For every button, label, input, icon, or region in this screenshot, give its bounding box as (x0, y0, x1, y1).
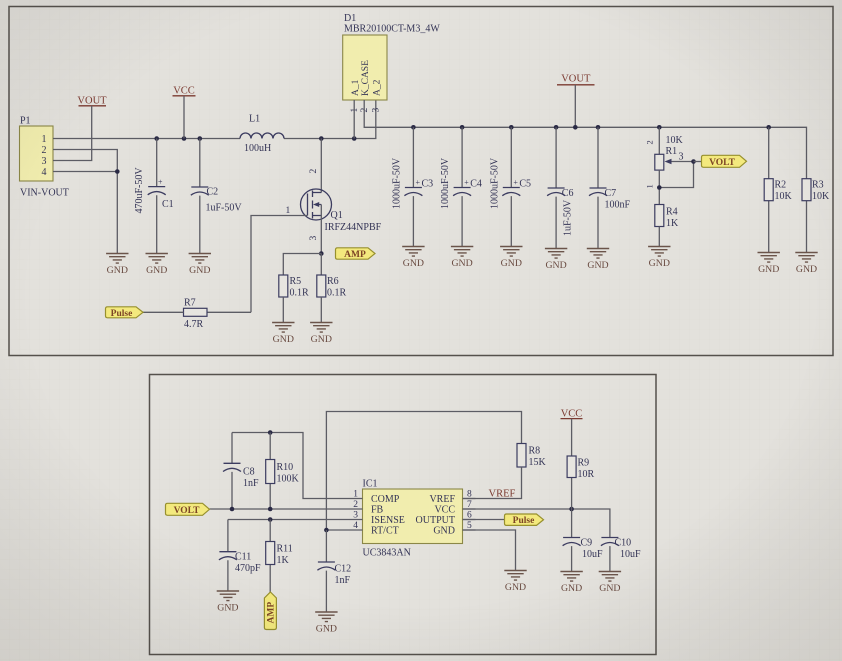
svg-text:4: 4 (42, 167, 47, 178)
svg-text:R5: R5 (290, 276, 302, 287)
node R10 top junction (268, 430, 273, 435)
svg-text:Q1: Q1 (331, 210, 343, 221)
svg-text:1nF: 1nF (335, 575, 351, 586)
svg-text:1nF: 1nF (243, 478, 259, 489)
ground C4 (451, 247, 473, 270)
resistor R10 (266, 433, 300, 510)
node C1 junction (154, 136, 159, 141)
svg-text:VREF: VREF (489, 489, 516, 500)
capacitor C6 (547, 127, 574, 248)
svg-text:VCC: VCC (173, 86, 195, 97)
ground C11 (217, 591, 239, 614)
svg-text:IRFZ44NPBF: IRFZ44NPBF (325, 222, 382, 233)
wire RT CT net pin4 (326, 412, 521, 531)
ground R2 (758, 253, 780, 276)
svg-text:100K: 100K (277, 474, 300, 485)
ground R6 (310, 323, 332, 346)
svg-text:100uH: 100uH (244, 143, 271, 154)
svg-text:3: 3 (372, 108, 382, 113)
node R1 junction (657, 125, 662, 130)
svg-text:IC1: IC1 (363, 479, 378, 490)
svg-text:C10: C10 (615, 538, 632, 549)
wire ISENSE net pin3 to C11 R11 (228, 520, 350, 552)
svg-text:3: 3 (353, 511, 358, 521)
svg-text:OUTPUT: OUTPUT (416, 515, 455, 526)
svg-text:1000uF-50V: 1000uF-50V (440, 157, 451, 209)
net flag AMP top (336, 248, 376, 260)
svg-text:100nF: 100nF (605, 200, 631, 211)
svg-text:GND: GND (217, 603, 238, 614)
transistor Q1 (286, 139, 382, 254)
svg-text:RT/CT: RT/CT (371, 526, 399, 537)
svg-text:VIN-VOUT: VIN-VOUT (20, 188, 69, 199)
svg-text:COMP: COMP (371, 494, 400, 505)
node C3 junction (411, 125, 416, 130)
svg-text:C5: C5 (519, 179, 531, 190)
svg-text:1000uF-50V: 1000uF-50V (489, 157, 500, 209)
diode D1 (343, 13, 441, 113)
ground C5 (500, 247, 522, 270)
svg-text:C9: C9 (581, 538, 593, 549)
svg-text:2: 2 (353, 500, 358, 510)
svg-text:1K: 1K (666, 218, 679, 229)
ground C6 (545, 249, 567, 272)
svg-text:GND: GND (403, 258, 424, 269)
svg-text:1: 1 (286, 206, 291, 216)
svg-text:4: 4 (353, 521, 358, 531)
svg-text:2: 2 (360, 108, 370, 113)
wire VCC port to rail (183, 96, 185, 139)
resistor R2 (764, 127, 792, 252)
node VCC junction (182, 136, 187, 141)
svg-text:3: 3 (679, 152, 684, 163)
svg-text:10K: 10K (812, 191, 830, 202)
wire GND pin5 (463, 530, 516, 571)
svg-text:0.1R: 0.1R (327, 288, 347, 299)
svg-text:VOLT: VOLT (174, 506, 201, 516)
wire P1 pin2 pin4 to ground (53, 150, 117, 254)
capacitor C11 (219, 552, 261, 592)
ground C1 (146, 254, 168, 277)
svg-text:GND: GND (501, 258, 522, 269)
power port VCC (173, 86, 196, 97)
svg-text:GND: GND (316, 624, 337, 635)
wire D1 pin2 cathode to output rail (364, 100, 806, 179)
svg-text:1: 1 (350, 108, 360, 113)
svg-text:C11: C11 (235, 552, 251, 563)
svg-text:3: 3 (309, 236, 319, 241)
svg-text:R10: R10 (277, 462, 294, 473)
svg-text:C1: C1 (162, 199, 174, 210)
node switch node Q1 drain (319, 136, 324, 141)
svg-text:GND: GND (587, 260, 608, 271)
resistor R5 (279, 275, 309, 323)
svg-text:+: + (464, 178, 469, 187)
svg-text:GND: GND (433, 526, 455, 537)
wire source node to R5 R6 (283, 254, 321, 276)
svg-text:A_1: A_1 (351, 79, 361, 96)
svg-text:1000uF-50V: 1000uF-50V (392, 157, 403, 209)
svg-text:GND: GND (451, 258, 472, 269)
ground C12 (315, 612, 337, 635)
svg-text:R2: R2 (775, 180, 787, 191)
ground C3 (402, 247, 424, 270)
capacitor C9 (563, 509, 603, 572)
svg-text:R9: R9 (578, 458, 590, 469)
capacitor C1 (134, 139, 174, 254)
node R9 C9 junction (569, 507, 574, 512)
svg-text:GND: GND (796, 264, 817, 275)
resistor R9 (567, 419, 594, 509)
svg-text:Pulse: Pulse (111, 309, 133, 319)
node C6 junction (554, 125, 559, 130)
svg-text:VOLT: VOLT (709, 158, 736, 168)
capacitor C12 (317, 530, 351, 612)
power port VOUT left (77, 96, 107, 107)
svg-text:L1: L1 (249, 114, 260, 125)
ground R3 (795, 253, 817, 276)
svg-text:C8: C8 (243, 467, 255, 478)
svg-text:3: 3 (42, 156, 47, 167)
resistor R6 (317, 275, 347, 323)
svg-text:C7: C7 (605, 188, 617, 199)
potentiometer R1 (645, 127, 694, 204)
svg-text:P1: P1 (20, 116, 31, 127)
svg-text:D1: D1 (344, 13, 356, 24)
svg-text:10K: 10K (775, 191, 793, 202)
svg-text:10uF: 10uF (620, 549, 641, 560)
wire VIN rail P1 pin1 to L1 (53, 138, 240, 140)
svg-text:1: 1 (42, 134, 47, 145)
svg-text:1: 1 (645, 184, 655, 188)
wire L1 to switch node and D1 anodes (284, 100, 376, 139)
svg-text:A_2: A_2 (373, 79, 383, 96)
svg-text:GND: GND (561, 583, 582, 594)
net flag VOLT top (702, 155, 747, 168)
wire VCC net pin7 (463, 509, 610, 538)
svg-text:C4: C4 (470, 179, 482, 190)
resistor R11 (266, 520, 293, 593)
svg-text:VOUT: VOUT (561, 74, 591, 85)
svg-text:VCC: VCC (434, 505, 455, 516)
svg-text:10R: 10R (578, 469, 595, 480)
ground IC1 pin5 (504, 571, 526, 594)
svg-text:R8: R8 (529, 446, 541, 457)
capacitor C3 (392, 127, 434, 246)
node R10 bottom junction (268, 507, 273, 512)
svg-text:R6: R6 (327, 276, 339, 287)
svg-text:GND: GND (649, 258, 670, 269)
power port VCC bottom (561, 409, 583, 420)
ground C10 (599, 572, 621, 595)
inductor L1 (240, 114, 284, 155)
wire OUTPUT pin6 to Pulse flag (463, 519, 505, 521)
svg-text:0.1R: 0.1R (290, 288, 310, 299)
svg-text:C2: C2 (207, 187, 219, 198)
svg-text:R1: R1 (666, 146, 678, 157)
svg-text:10K: 10K (666, 135, 684, 146)
svg-text:VREF: VREF (429, 494, 455, 505)
svg-text:470uF-50V: 470uF-50V (134, 167, 145, 214)
ground R5 (272, 323, 294, 346)
svg-text:GND: GND (189, 265, 210, 276)
node R1 bottom junction (657, 185, 662, 190)
svg-text:1K: 1K (277, 555, 290, 566)
svg-text:2: 2 (309, 169, 319, 174)
svg-text:R11: R11 (277, 544, 293, 555)
op-amp controller IC1 UC3843AN (350, 479, 476, 559)
svg-text:C3: C3 (422, 179, 434, 190)
node P1 pin4 junction (115, 169, 120, 174)
svg-text:C12: C12 (335, 564, 352, 575)
svg-text:2: 2 (42, 145, 47, 156)
ground C9 (560, 572, 582, 595)
wire D1 pin1 anode to switch node (353, 100, 355, 139)
svg-text:GND: GND (273, 334, 294, 345)
node VOUT junction (573, 125, 578, 130)
node C2 junction (198, 136, 203, 141)
power port VOUT right (557, 74, 595, 85)
svg-text:ISENSE: ISENSE (371, 515, 405, 526)
svg-text:AMP: AMP (344, 250, 366, 260)
node D1 pin1 junction (352, 136, 357, 141)
svg-text:R4: R4 (666, 207, 678, 218)
svg-text:R7: R7 (184, 298, 196, 309)
svg-text:GND: GND (758, 264, 779, 275)
wire Q1 gate net (207, 216, 308, 313)
svg-text:1uF-50V: 1uF-50V (206, 203, 243, 214)
svg-text:+: + (513, 178, 518, 187)
svg-text:GND: GND (505, 582, 526, 593)
resistor R3 (802, 179, 830, 253)
svg-text:R3: R3 (812, 180, 824, 191)
svg-text:UC3843AN: UC3843AN (363, 548, 411, 559)
capacitor C5 (489, 127, 531, 246)
svg-text:MBR20100CT-M3_4W: MBR20100CT-M3_4W (344, 24, 440, 35)
wire R1 wiper to bottom terminal (659, 162, 693, 188)
node C7 junction (596, 125, 601, 130)
ground R4 (648, 247, 670, 270)
node RT CT junction (324, 528, 329, 533)
ground C7 (587, 249, 609, 272)
wire VOUT port to output rail (574, 85, 576, 128)
svg-text:2: 2 (645, 140, 655, 144)
svg-text:1uF-50V: 1uF-50V (563, 199, 574, 236)
svg-text:K_CASE: K_CASE (361, 60, 371, 96)
svg-text:GND: GND (311, 334, 332, 345)
wire FB net pin2 to VOLT flag (210, 508, 350, 510)
node R1 wiper junction (691, 159, 696, 164)
svg-text:C6: C6 (562, 188, 574, 199)
svg-text:+: + (158, 178, 163, 187)
net flag AMP bottom (264, 592, 276, 630)
capacitor C2 (191, 139, 243, 254)
wire wiper to VOLT flag (694, 161, 702, 163)
svg-text:VCC: VCC (561, 409, 583, 420)
capacitor C7 (589, 127, 631, 248)
node C4 junction (460, 125, 465, 130)
node C5 junction (509, 125, 514, 130)
node R2 junction (766, 125, 771, 130)
ground C2 (189, 254, 211, 277)
svg-text:4.7R: 4.7R (184, 319, 204, 330)
svg-text:Pulse: Pulse (513, 516, 535, 526)
ground P1 (106, 254, 128, 277)
resistor R4 (655, 205, 679, 247)
svg-text:15K: 15K (529, 457, 547, 468)
svg-text:10uF: 10uF (582, 549, 603, 560)
connector P1 (20, 116, 69, 199)
svg-text:1: 1 (353, 490, 358, 500)
node R11 top junction (268, 517, 273, 522)
wire COMP pin1 to compensation node (232, 433, 350, 499)
svg-text:470pF: 470pF (235, 563, 261, 574)
resistor R7 (143, 298, 207, 331)
svg-text:GND: GND (599, 583, 620, 594)
svg-text:GND: GND (545, 260, 566, 271)
svg-text:GND: GND (107, 265, 128, 276)
wire VOUT port to P1 pin3 (53, 106, 92, 161)
capacitor C8 (223, 433, 259, 510)
net flag VOLT bottom (166, 503, 210, 516)
capacitor C10 (601, 538, 641, 572)
svg-text:AMP: AMP (267, 602, 277, 624)
node C8 bottom junction (230, 507, 235, 512)
svg-text:GND: GND (146, 265, 167, 276)
svg-text:FB: FB (371, 505, 384, 516)
svg-text:VOUT: VOUT (77, 96, 107, 107)
net flag Pulse top (106, 307, 144, 319)
svg-text:+: + (416, 178, 421, 187)
net flag Pulse bottom (505, 514, 544, 526)
node Q1 source junction (319, 251, 324, 256)
resistor R8 (463, 444, 547, 499)
capacitor C4 (440, 127, 482, 246)
